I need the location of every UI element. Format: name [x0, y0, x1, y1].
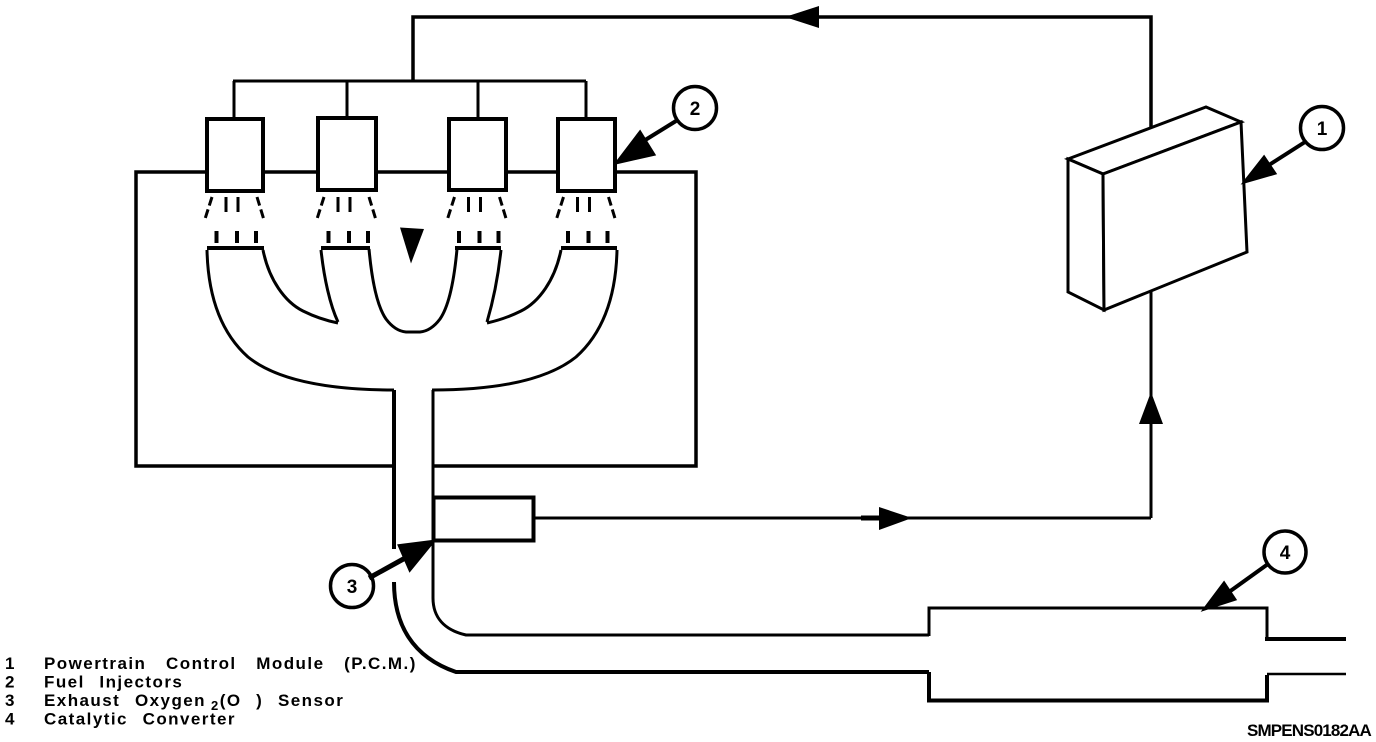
svg-text:Fuel Injectors: Fuel Injectors [44, 673, 183, 692]
svg-text:Catalytic Converter: Catalytic Converter [44, 710, 236, 729]
svg-text:2: 2 [690, 99, 701, 120]
svg-text:1: 1 [1317, 119, 1328, 140]
svg-text:3: 3 [347, 577, 358, 598]
svg-text:1: 1 [5, 654, 16, 673]
svg-text:4: 4 [5, 710, 16, 729]
svg-text:SMPENS0182AA: SMPENS0182AA [1247, 721, 1372, 740]
svg-text:Powertrain Control Module (P.C: Powertrain Control Module (P.C.M.) [44, 654, 417, 673]
svg-text:2: 2 [5, 673, 16, 692]
svg-text:3: 3 [5, 691, 16, 710]
svg-text:4: 4 [1280, 543, 1291, 564]
